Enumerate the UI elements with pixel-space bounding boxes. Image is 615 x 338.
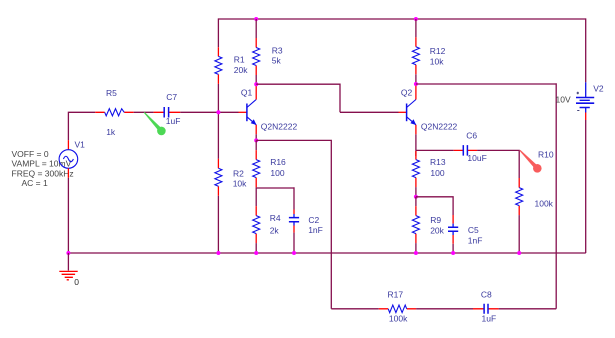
capacitor C6 — [454, 145, 477, 156]
wire R4 top — [255, 188, 257, 206]
svg-text:Q2: Q2 — [401, 87, 413, 97]
svg-text:R1: R1 — [234, 55, 245, 65]
svg-text:R5: R5 — [106, 88, 117, 98]
wire feedback bottom right segment — [499, 308, 557, 310]
svg-text:100k: 100k — [535, 199, 554, 209]
wire R1 bottom to signal node — [217, 84, 219, 112]
wire V2 top column — [585, 18, 587, 82]
junction node Q2 collector — [414, 82, 418, 86]
svg-text:VAMPL = 10mV: VAMPL = 10mV — [12, 159, 72, 169]
battery V2 — [576, 82, 594, 120]
junction ground rail at V1 — [66, 251, 70, 255]
svg-text:Q2N2222: Q2N2222 — [421, 122, 458, 132]
svg-text:5k: 5k — [272, 56, 282, 66]
svg-text:R9: R9 — [430, 215, 441, 225]
wire R4 bottom to ground rail — [255, 243, 257, 253]
svg-text:R4: R4 — [270, 213, 281, 223]
svg-text:20k: 20k — [234, 65, 248, 75]
svg-text:100k: 100k — [389, 314, 408, 324]
wire R13 top — [415, 150, 417, 156]
svg-text:1uF: 1uF — [166, 116, 181, 126]
junction ground rail at R4 — [254, 251, 258, 255]
wire top power rail — [218, 18, 585, 20]
resistor R9 — [412, 206, 419, 243]
wire ground stub below rail — [67, 253, 69, 271]
wire R5 to C7 — [134, 111, 154, 113]
resistor R17 — [379, 305, 416, 313]
svg-text:1nF: 1nF — [308, 225, 323, 235]
wire R2 top from signal node — [217, 112, 219, 159]
junction node signal at R1/R2/base — [216, 110, 220, 114]
wire feedback bottom left segment — [331, 308, 379, 310]
svg-text:1nF: 1nF — [468, 235, 483, 245]
wire Q2 collector to feedback right branch — [416, 83, 556, 308]
svg-text:R16: R16 — [270, 157, 286, 167]
capacitor C7 — [154, 107, 181, 118]
wire Q2 emitter down to corner — [415, 134, 417, 150]
svg-text:R10: R10 — [538, 150, 554, 160]
wire R3 bottom to Q1 collector node — [255, 75, 257, 84]
svg-text:1uF: 1uF — [482, 314, 497, 324]
resistor R2 — [215, 159, 222, 196]
wire R12 bottom to Q2 collector node — [415, 74, 417, 84]
probe marker green at C7 input — [144, 112, 166, 135]
wire C5 bottom to ground rail — [452, 244, 454, 253]
svg-text:R17: R17 — [388, 289, 404, 299]
wire R16 bottom node to C2 — [256, 187, 294, 209]
resistor R5 — [95, 109, 134, 116]
transistor Q2 — [399, 86, 417, 135]
svg-text:0: 0 — [74, 277, 79, 287]
junction ground rail at R9 — [414, 251, 418, 255]
capacitor C2 — [289, 210, 299, 233]
junction top rail at R12 — [414, 17, 418, 21]
svg-text:R2: R2 — [233, 168, 244, 178]
wire Q1 emitter to node — [255, 134, 257, 140]
svg-text:1k: 1k — [106, 127, 116, 137]
svg-text:100: 100 — [430, 168, 444, 178]
resistor R16 — [253, 150, 260, 187]
wire R3 column top — [255, 19, 257, 38]
svg-text:10uF: 10uF — [467, 153, 486, 163]
svg-text:V2: V2 — [593, 83, 604, 93]
wire C6 to R10 corner — [477, 150, 519, 178]
wire R13 bottom to node — [415, 187, 417, 197]
wire R17 to C8 — [416, 308, 473, 310]
svg-text:10k: 10k — [233, 179, 247, 189]
wire V2 bottom to ground rail — [585, 120, 587, 253]
probe marker red at R10 output — [520, 150, 542, 173]
svg-text:C5: C5 — [468, 225, 479, 235]
svg-text:R12: R12 — [430, 46, 446, 56]
wire R9 top — [415, 197, 417, 206]
svg-text:C6: C6 — [466, 131, 477, 141]
capacitor C8 — [473, 304, 499, 314]
svg-text:10V: 10V — [556, 95, 571, 105]
resistor R12 — [412, 37, 419, 74]
resistor R13 — [412, 151, 419, 187]
wire ground rail — [68, 252, 585, 254]
wire R12 column top — [415, 19, 417, 37]
junction ground rail at R10 — [517, 251, 521, 255]
wire R9 bottom to ground rail — [415, 243, 417, 253]
junction ground rail at C2 — [292, 251, 296, 255]
wire C2 bottom to ground rail — [293, 233, 295, 253]
svg-text:V1: V1 — [75, 140, 86, 150]
svg-text:10k: 10k — [430, 57, 444, 67]
resistor R3 — [253, 38, 260, 75]
junction node Q1 collector — [254, 82, 258, 86]
junction ground rail at R2 — [216, 251, 220, 255]
svg-text:AC = 1: AC = 1 — [22, 178, 48, 188]
svg-text:C7: C7 — [166, 92, 177, 102]
wire C7 to Q1 base — [180, 111, 238, 113]
svg-text:R13: R13 — [430, 157, 446, 167]
svg-text:2k: 2k — [270, 225, 280, 235]
svg-text:VOFF = 0: VOFF = 0 — [12, 149, 49, 159]
wire feedback left branch — [256, 140, 331, 309]
junction node R13/R9/C5 — [414, 195, 418, 199]
svg-text:100: 100 — [270, 168, 284, 178]
wire Q2 emitter node to C6 — [416, 149, 454, 151]
resistor R10 — [516, 178, 523, 215]
wire V1 top corner to R5 — [68, 112, 95, 141]
capacitor C5 — [448, 215, 458, 244]
svg-text:R3: R3 — [272, 46, 283, 56]
wire R16 top from Q1 emitter node — [255, 140, 257, 150]
svg-text:Q1: Q1 — [241, 87, 253, 97]
svg-text:Q2N2222: Q2N2222 — [261, 122, 298, 132]
ground symbol 0 — [59, 271, 77, 279]
wire R10 bottom to ground rail — [518, 215, 520, 253]
svg-text:FREQ = 300kHz: FREQ = 300kHz — [12, 168, 74, 178]
wire node to C5 — [416, 196, 453, 215]
junction node Q1 emitter — [254, 138, 258, 142]
svg-text:C8: C8 — [481, 289, 492, 299]
junction top rail at R3 — [254, 17, 258, 21]
wire R2 bottom to ground rail — [217, 196, 219, 253]
voltage source V1 — [59, 140, 78, 178]
wire Q1 collector to Q2 base — [256, 84, 398, 113]
resistor R4 — [253, 206, 260, 243]
wire V1 bottom to ground rail — [67, 178, 69, 253]
transistor Q1 — [239, 86, 257, 134]
resistor R1 — [215, 47, 222, 84]
wire R1 column top — [217, 18, 219, 47]
junction ground rail at C5 — [451, 251, 455, 255]
svg-text:C2: C2 — [308, 215, 319, 225]
svg-text:20k: 20k — [430, 225, 444, 235]
